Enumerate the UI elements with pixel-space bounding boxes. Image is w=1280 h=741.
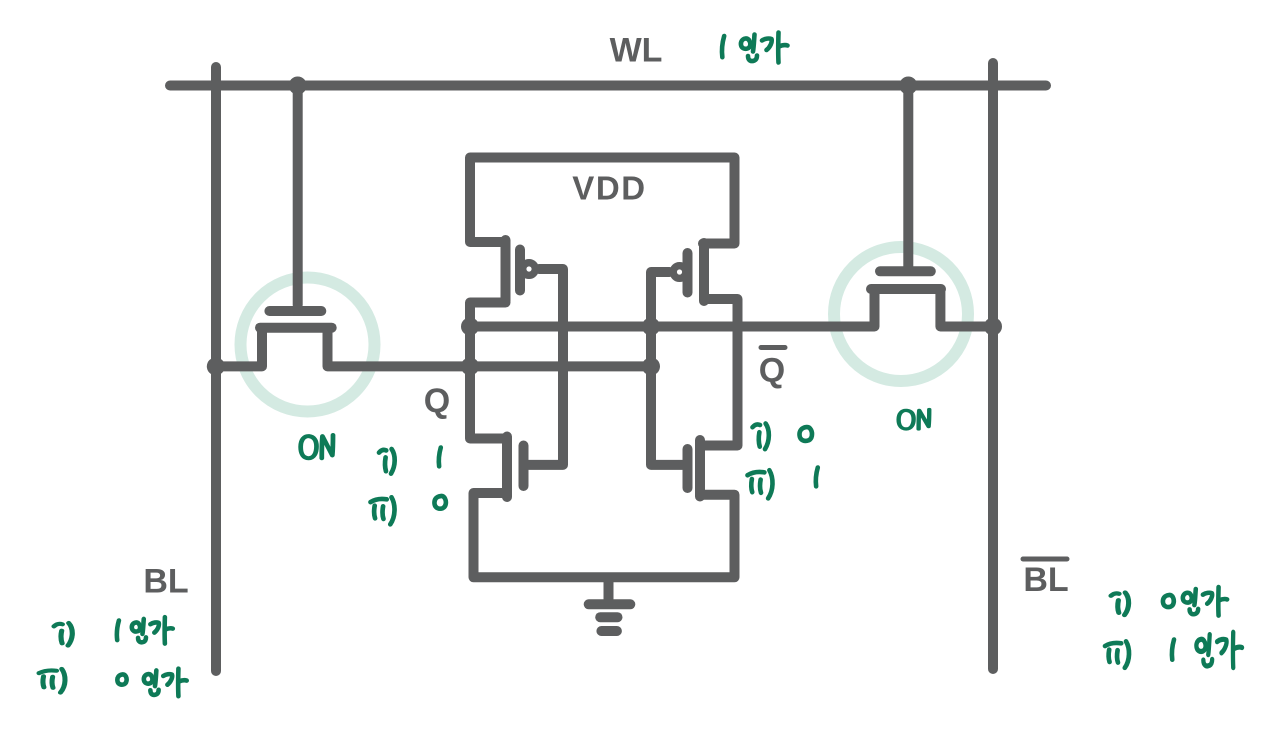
annotation 0 near Q-bar <box>799 427 812 441</box>
annotation inga at BL row1 <box>132 617 173 643</box>
annotation 1 at BL <box>117 621 119 641</box>
annotation ii) near Q <box>371 497 395 524</box>
wire right inverter input: PMOS gate down to NMOS gate <box>651 272 686 465</box>
transistor P1 left PMOS: gate bubble <box>522 262 537 277</box>
transistor M6 right access: channel bar <box>871 284 941 294</box>
transistor P1 left PMOS: gate bar <box>515 250 525 291</box>
annotation i) near Q <box>379 449 395 474</box>
annotation ii) at BL-bar <box>1105 641 1129 668</box>
ground symbol bar 1 <box>589 599 631 609</box>
transistor N2 right NMOS: channel bar <box>695 440 705 497</box>
wire right access left leg joining Q-bar horizontal <box>470 292 875 327</box>
annotation ii) at BL <box>39 669 65 693</box>
wire left access source leg to BL <box>216 331 262 366</box>
wire right access right leg to BL-bar <box>940 292 993 327</box>
annotation 1 near Q-bar <box>816 468 818 487</box>
transistor N1 left NMOS: channel bar <box>502 437 512 498</box>
junction dot node Q lower right <box>642 357 660 375</box>
junction dot WL / right gate <box>899 77 917 95</box>
svg-text:Q: Q <box>424 382 450 420</box>
wire left inverter input: PMOS gate to NMOS gate <box>525 269 564 465</box>
svg-text:Q: Q <box>759 352 785 390</box>
svg-text:BL: BL <box>1023 561 1068 599</box>
transistor P2 right PMOS: gate bubble <box>672 265 687 280</box>
annotation i) at BL <box>54 623 72 646</box>
annotation 1 at BL-bar <box>1172 640 1174 660</box>
highlight circle right access transistor <box>834 247 968 381</box>
annotation inga at BL row2 <box>144 669 187 697</box>
wire BL-bar bit line right <box>988 63 998 669</box>
annotation: inga at WL <box>741 33 788 63</box>
wire VDD rail <box>470 158 735 244</box>
annotation 0 at BL <box>117 674 126 684</box>
annotation i) near Q-bar <box>753 424 769 450</box>
transistor P1 left PMOS: channel bar <box>501 240 511 301</box>
transistor M5 left access: gate wire from WL <box>293 86 303 306</box>
annotation 1 near Q <box>439 448 441 467</box>
transistor N2 right NMOS: gate bar <box>683 449 693 488</box>
wire left access drain leg to node Q <box>328 331 652 366</box>
transistor M5 left access: channel bar <box>260 323 332 333</box>
annotation ON right <box>899 409 930 428</box>
transistor M6 right access: gate wire from WL <box>903 86 913 267</box>
annotation 0 at BL-bar <box>1163 595 1174 607</box>
junction dot node Q upper left <box>461 318 479 336</box>
wire left inverter output vertical (P drain to N drain) <box>470 303 506 439</box>
annotation inga at BL-bar row2 <box>1196 632 1242 667</box>
transistor P2 right PMOS: channel bar <box>699 243 709 301</box>
wire right inverter output vertical (P drain to N drain) <box>702 299 738 446</box>
ground symbol bar 2 <box>600 612 617 622</box>
annotation ON left <box>301 435 333 458</box>
transistor M5 left access: gate bar <box>269 306 321 316</box>
junction dot node Q upper right <box>642 318 660 336</box>
junction dot BL-bar / right access <box>984 318 1002 336</box>
wire BL bit line left <box>211 67 221 671</box>
ground symbol bar 3 <box>601 626 617 636</box>
annotation ii) near Q-bar <box>748 470 773 498</box>
transistor N1 left NMOS: gate bar <box>519 446 529 487</box>
svg-text:BL: BL <box>143 563 188 601</box>
svg-text:VDD: VDD <box>572 170 646 207</box>
annotation inga at BL-bar row1 <box>1183 587 1227 616</box>
junction dot node Q lower left <box>461 357 479 375</box>
transistor M6 right access: gate bar <box>880 266 931 276</box>
junction dot WL / left gate <box>289 77 307 95</box>
annotation i) at BL-bar <box>1111 593 1129 616</box>
junction dot BL / left access <box>207 357 225 375</box>
highlight circle left access transistor <box>241 278 375 412</box>
transistor P2 right PMOS: gate bar <box>683 253 693 293</box>
annotation 0 near Q <box>434 496 445 509</box>
svg-text:WL: WL <box>610 32 663 70</box>
ground symbol stem <box>604 582 614 599</box>
wire NMOS sources and ground rail <box>474 493 735 577</box>
annotation: 1 at WL <box>722 36 724 57</box>
wire WL word line <box>170 81 1046 91</box>
